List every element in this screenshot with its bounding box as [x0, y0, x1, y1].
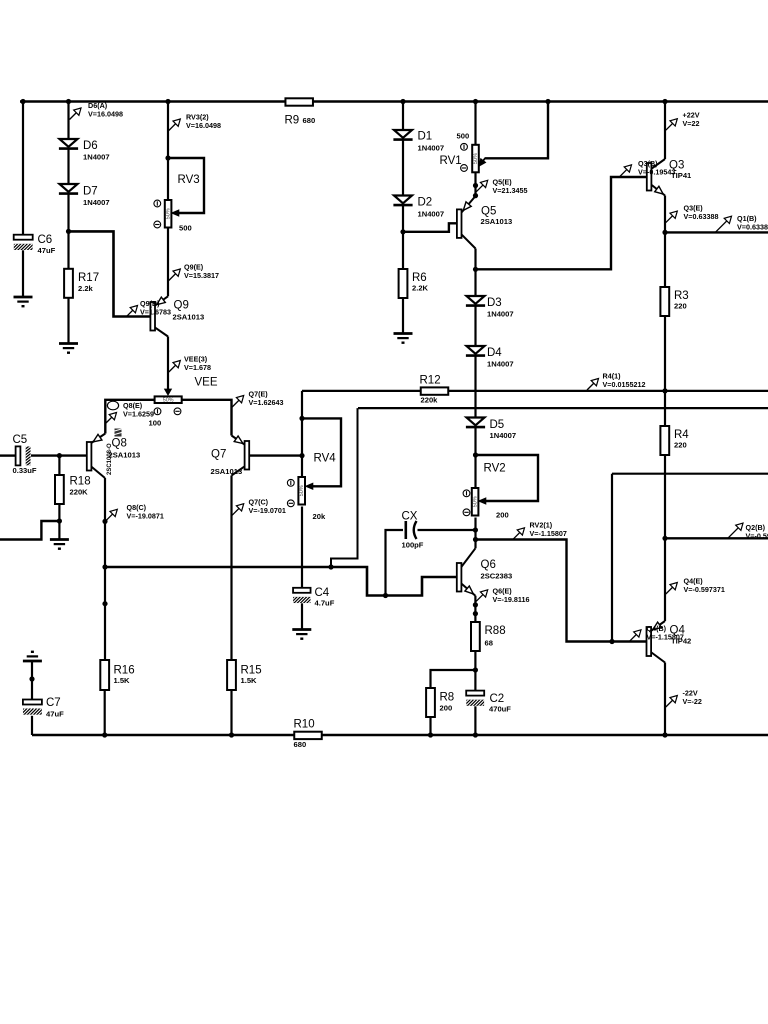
- RV1 wiper: [481, 158, 485, 164]
- wire RV1 wiper to top rail: [485, 102, 548, 159]
- svg-text:V=1.6259: V=1.6259: [123, 410, 154, 419]
- ground under R6: [394, 332, 413, 335]
- RV2 wiper: [482, 500, 487, 502]
- probe Q3(B): [620, 168, 629, 177]
- wire Q5 collector to Q3 base: [476, 177, 647, 269]
- ground under C6: [14, 296, 33, 299]
- wire R8 to bottom rail: [429, 717, 431, 735]
- wire +V top rail: [20, 100, 768, 103]
- wire R18 to ground node: [58, 504, 60, 539]
- wire RV2 bottom: [474, 518, 476, 549]
- wire RV4 bottom to C4: [301, 507, 303, 588]
- resistor R9: [285, 98, 313, 105]
- probe +22V: [666, 122, 675, 131]
- resistor R10: [294, 732, 322, 739]
- svg-text:V=22: V=22: [683, 119, 700, 128]
- svg-text:1.5K: 1.5K: [241, 676, 258, 685]
- node RV2 bottom / out: [473, 537, 478, 542]
- svg-text:2SA1013: 2SA1013: [211, 467, 243, 476]
- RV4 terminal 2: [287, 500, 294, 507]
- probe VEE(3): [169, 364, 178, 373]
- svg-text:D7: D7: [83, 186, 98, 198]
- node Q8 collector / long wire: [102, 564, 107, 569]
- RV4 wiper: [309, 485, 315, 487]
- svg-text:V=-19.8116: V=-19.8116: [493, 595, 530, 604]
- resistor R16: [100, 660, 109, 690]
- svg-text:2SC1008-O: 2SC1008-O: [107, 443, 113, 475]
- probe Q9(E): [169, 272, 178, 281]
- probe D6(A): [70, 111, 79, 120]
- capacitor C5: [16, 446, 21, 465]
- resistor R8: [426, 688, 435, 717]
- svg-text:V=-19.0871: V=-19.0871: [127, 512, 164, 521]
- probe -22V: [666, 699, 675, 708]
- svg-text:D5: D5: [490, 419, 505, 431]
- wire RV1 to Q5 emitter: [474, 172, 476, 196]
- svg-text:R16: R16: [114, 665, 135, 677]
- node CX / RV2 bottom: [473, 527, 478, 532]
- wire Q6 emitter down to R88: [474, 596, 476, 622]
- wire D4-D5: [474, 356, 476, 418]
- svg-text:50%: 50%: [473, 496, 479, 507]
- wire Q7 emitter diagonal: [232, 436, 245, 445]
- svg-text:R18: R18: [70, 476, 91, 488]
- svg-text:R12: R12: [420, 375, 441, 387]
- wire Q4 collector diagonal: [651, 652, 665, 663]
- wire RV3 to Q9 emitter: [167, 228, 169, 297]
- probe Q7(C): [232, 507, 241, 516]
- svg-text:V=16.0498: V=16.0498: [88, 110, 123, 119]
- resistor R18: [55, 475, 64, 504]
- wire D7 node to Q9 base: [69, 231, 151, 316]
- svg-text:V=-0.59737: V=-0.59737: [746, 532, 768, 541]
- svg-text:220: 220: [674, 302, 687, 311]
- wire net line2: [358, 407, 768, 409]
- node Q5 emitter join: [473, 193, 478, 198]
- diode D1: [394, 130, 412, 138]
- wire D2-R6: [402, 205, 404, 269]
- node Q5 collector: [473, 267, 478, 272]
- wire CX left vertical: [386, 530, 404, 596]
- svg-text:V=-1.15807: V=-1.15807: [647, 633, 684, 642]
- svg-text:500: 500: [457, 132, 470, 141]
- svg-text:Q6: Q6: [481, 559, 496, 571]
- wire C4 to ground: [301, 603, 303, 628]
- wire Q3 collector diagonal: [652, 159, 665, 169]
- svg-text:1N4007: 1N4007: [83, 198, 110, 207]
- svg-text:Q5: Q5: [481, 206, 496, 218]
- wire D6-D7: [67, 149, 69, 185]
- diode D5: [467, 418, 485, 426]
- svg-text:1N4007: 1N4007: [490, 431, 517, 440]
- node top rail / RV1: [473, 99, 478, 104]
- capacitor CX: [404, 521, 407, 539]
- svg-text:D4: D4: [487, 347, 502, 359]
- transistor Q9 2SA1013: [150, 302, 155, 331]
- wire RV4 top branch: [301, 391, 303, 477]
- RV3 terminal 2: [154, 221, 161, 228]
- wire Q8 emitter diagonal: [91, 434, 105, 444]
- probe Q5(E): [476, 183, 485, 192]
- svg-text:D2: D2: [418, 197, 433, 209]
- svg-text:V=-0.597371: V=-0.597371: [684, 585, 725, 594]
- svg-text:1N4007: 1N4007: [418, 210, 445, 219]
- node R16 bottom rail: [102, 732, 107, 737]
- probe Q7(E): [232, 399, 241, 408]
- node top rail / +22: [662, 99, 667, 104]
- svg-text:50%: 50%: [166, 208, 172, 219]
- wire C6 to ground: [22, 250, 24, 296]
- svg-text:R8: R8: [440, 692, 455, 704]
- wire D6 branch: [67, 102, 69, 140]
- node CX / long rail: [383, 593, 388, 598]
- node Q8 collector mid: [102, 601, 107, 606]
- svg-text:47uF: 47uF: [46, 710, 64, 719]
- resistor R88: [471, 622, 480, 651]
- node RV2 loop top: [473, 452, 478, 457]
- svg-text:CX: CX: [402, 511, 418, 523]
- node top rail / C6: [20, 99, 25, 104]
- node C5/R18 junction: [57, 453, 62, 458]
- svg-text:V=-19.0701: V=-19.0701: [249, 506, 286, 515]
- svg-text:2SA1013: 2SA1013: [481, 217, 513, 226]
- wire D1-D2: [402, 140, 404, 196]
- ground under R17: [59, 342, 78, 345]
- probe Q4(B): [630, 633, 639, 642]
- svg-text:V=1.678: V=1.678: [184, 363, 211, 372]
- transistor Q7 2SA1013: [245, 441, 250, 470]
- svg-text:V=0.0155212: V=0.0155212: [603, 380, 646, 389]
- probe R4(1): [587, 382, 596, 391]
- probe Q1(B): [716, 219, 729, 232]
- wire Q5 emitter diagonal: [462, 196, 476, 213]
- diode D6: [60, 139, 78, 147]
- resistor R15: [227, 660, 236, 690]
- potentiometer RV4: [298, 477, 305, 505]
- svg-text:R17: R17: [78, 272, 99, 284]
- svg-text:R4: R4: [674, 429, 689, 441]
- svg-text:RV3: RV3: [178, 174, 200, 186]
- probe Q9(B): [126, 309, 135, 318]
- wire RV4 feedback loop: [302, 418, 341, 486]
- wire Q5 collector down: [474, 249, 476, 297]
- wire net out3: [665, 231, 768, 233]
- svg-text:R15: R15: [241, 665, 262, 677]
- node R15 bottom rail: [229, 732, 234, 737]
- RV2 terminal 2: [463, 509, 470, 516]
- svg-text:1N4007: 1N4007: [487, 360, 514, 369]
- ground under R18: [50, 538, 69, 541]
- wire line3 down to Q4 base: [611, 474, 613, 642]
- svg-text:220k: 220k: [421, 396, 439, 405]
- node RV4 loop top: [299, 416, 304, 421]
- svg-text:0.33uF: 0.33uF: [13, 466, 37, 475]
- ground flag above C7: [23, 660, 42, 663]
- svg-text:D3: D3: [487, 297, 502, 309]
- node R88/R8/C2: [473, 667, 478, 672]
- wire C7 branch: [31, 661, 33, 700]
- svg-text:680: 680: [294, 740, 307, 749]
- svg-text:V=16.0498: V=16.0498: [186, 121, 221, 130]
- wire R4 down: [664, 455, 666, 538]
- node top rail / D6: [66, 99, 71, 104]
- svg-text:2SA1013: 2SA1013: [109, 451, 141, 460]
- svg-text:C4: C4: [315, 587, 330, 599]
- node Q3 emitter / out3: [662, 230, 667, 235]
- svg-text:200: 200: [440, 704, 453, 713]
- wire R3-R4: [664, 316, 666, 426]
- node R3/R4 line1: [662, 388, 667, 393]
- wire R16 to bottom rail: [104, 690, 106, 735]
- wire Q3 emitter diagonal: [652, 185, 665, 196]
- wire C5 to Q8 base: [31, 454, 87, 456]
- svg-text:Q9: Q9: [174, 300, 189, 312]
- transistor Q8 2SA1013: [87, 442, 92, 471]
- node Q8 collector probe: [102, 519, 107, 524]
- wire Q7 collector down to R15: [230, 476, 232, 661]
- svg-text:R9: R9: [285, 115, 300, 127]
- svg-text:RV1: RV1: [440, 155, 462, 167]
- RV5 terminal 1: [154, 408, 161, 415]
- diode D4: [467, 346, 485, 354]
- wire input stub: [0, 454, 15, 456]
- wire Q9 collector down to RV5 wiper: [167, 337, 169, 392]
- svg-text:1.5K: 1.5K: [114, 676, 131, 685]
- node top rail / RV1 wiper: [545, 99, 550, 104]
- resistor R4: [660, 426, 669, 455]
- wire RV2 feedback loop: [476, 455, 539, 501]
- wire R18 node to left edge: [0, 521, 59, 540]
- probe Q8(C): [106, 512, 115, 521]
- ground under C4: [292, 628, 311, 631]
- wire net line3: [612, 473, 768, 475]
- wire R6-ground: [402, 298, 404, 334]
- wire net out2: [665, 537, 768, 539]
- svg-text:2SC2383: 2SC2383: [481, 572, 513, 581]
- svg-text:100pF: 100pF: [402, 541, 424, 550]
- transistor Q3 TIP41: [647, 163, 652, 191]
- svg-text:20k: 20k: [313, 512, 326, 521]
- node RV4 / Q7 base: [299, 453, 304, 458]
- wire node to R8: [431, 670, 476, 688]
- RV1 terminal 1: [461, 143, 468, 150]
- node Q6 emitter probe: [473, 602, 478, 607]
- transistor Q6 2SC2383: [457, 563, 462, 592]
- wire CX right: [418, 529, 476, 531]
- wire C7 to bottom rail: [31, 716, 33, 735]
- svg-text:D1: D1: [418, 131, 433, 143]
- node Q4 emitter / out2: [662, 536, 667, 541]
- node top rail / RV3: [165, 99, 170, 104]
- wire Q8 collector down: [104, 478, 106, 660]
- probe RV2(1): [513, 531, 522, 540]
- svg-text:C2: C2: [490, 693, 505, 705]
- node D7/R17 junction: [66, 229, 71, 234]
- svg-text:V=1.6783: V=1.6783: [140, 308, 171, 317]
- svg-text:RV4: RV4: [314, 453, 337, 465]
- svg-text:100: 100: [149, 419, 162, 428]
- svg-text:V=-22: V=-22: [683, 697, 702, 706]
- probe Q6(E): [476, 593, 485, 602]
- wire Q4 emitter up: [664, 538, 666, 621]
- probe Q8(E): [107, 401, 118, 410]
- transistor Q4 TIP42: [647, 627, 652, 656]
- svg-text:R3: R3: [674, 290, 689, 302]
- svg-text:2SA1013: 2SA1013: [173, 313, 205, 322]
- potentiometer RV3: [165, 200, 172, 228]
- RV3 wiper: [175, 212, 181, 214]
- wire RV3 feedback loop: [168, 158, 204, 213]
- wire Q5 collector diagonal: [462, 234, 476, 248]
- wire bottom rail: [32, 734, 768, 737]
- wire R15 to bottom rail: [230, 690, 232, 735]
- RV1 terminal 2: [461, 165, 468, 172]
- svg-text:500: 500: [179, 224, 192, 233]
- node Q5 emitter probe: [473, 183, 478, 188]
- wire R18 branch: [58, 456, 60, 475]
- svg-text:47uF: 47uF: [38, 246, 56, 255]
- wire D2 node to Q5 base: [403, 223, 457, 232]
- node RV3 top loop: [165, 155, 170, 160]
- probe Q3(E): [666, 214, 675, 223]
- svg-text:Q8: Q8: [112, 438, 127, 450]
- wire Q4 emitter diagonal: [651, 621, 665, 631]
- wire Q4 collector to bottom rail: [664, 663, 666, 736]
- resistor R17: [64, 269, 73, 298]
- node C7 top: [29, 676, 34, 681]
- svg-text:R10: R10: [294, 719, 315, 731]
- wire Q8 collector diagonal: [91, 467, 105, 479]
- svg-text:V=15.3817: V=15.3817: [184, 271, 219, 280]
- wire net line1: [302, 390, 768, 392]
- svg-text:C6: C6: [38, 234, 53, 246]
- node Q4 bottom rail: [662, 732, 667, 737]
- svg-text:1N4007: 1N4007: [487, 310, 514, 319]
- svg-text:V=-1.15807: V=-1.15807: [530, 529, 567, 538]
- wire long mid rail: [105, 567, 457, 596]
- node Q4 base / feedback: [609, 639, 614, 644]
- RV3 terminal 1: [154, 200, 161, 207]
- wire RV5 left to Q8 emitter: [105, 400, 154, 434]
- svg-text:1N4007: 1N4007: [418, 144, 445, 153]
- svg-text:V=21.3455: V=21.3455: [493, 186, 528, 195]
- probe Q2(B): [728, 526, 740, 538]
- node R18 bottom: [57, 518, 62, 523]
- potentiometer RV5 100ohm: [155, 396, 182, 403]
- svg-text:200: 200: [496, 511, 509, 520]
- svg-text:VEE: VEE: [195, 377, 218, 389]
- wire D5-RV2: [474, 427, 476, 488]
- svg-text:220K: 220K: [70, 488, 89, 497]
- wire out to Q4 base: [476, 540, 647, 642]
- svg-text:RV2: RV2: [484, 463, 506, 475]
- wire Q7 collector diagonal: [232, 466, 245, 475]
- diode D7: [60, 184, 78, 192]
- svg-text:C5: C5: [13, 434, 28, 446]
- potentiometer RV1: [472, 145, 479, 173]
- svg-text:680: 680: [303, 116, 316, 125]
- resistor R3: [660, 287, 669, 316]
- probe Q4(E): [666, 586, 675, 595]
- RV2 terminal 1: [463, 490, 470, 497]
- wire Q3 emitter down: [664, 196, 666, 288]
- probe RV3(2): [169, 122, 178, 131]
- wire D1 branch: [402, 102, 404, 131]
- svg-text:Q7: Q7: [211, 449, 226, 461]
- RV4 terminal 1: [287, 479, 294, 486]
- svg-text:2.2K: 2.2K: [412, 284, 429, 293]
- wire D3-D4: [474, 306, 476, 347]
- svg-text:50%: 50%: [299, 485, 305, 496]
- svg-text:2.2k: 2.2k: [78, 284, 94, 293]
- svg-text:V=0.63388: V=0.63388: [737, 223, 768, 232]
- wire RV5 right to Q7 emitter: [182, 400, 232, 436]
- svg-text:68: 68: [485, 639, 493, 648]
- svg-text:R6: R6: [412, 272, 427, 284]
- transistor Q5 2SA1013: [457, 209, 462, 238]
- svg-text:C7: C7: [46, 697, 61, 709]
- resistor R6: [399, 269, 408, 298]
- wire Q6 collector diagonal: [461, 548, 475, 567]
- svg-text:D6: D6: [83, 140, 98, 152]
- wire D7-R17: [67, 194, 69, 269]
- wire RV3 branch: [167, 102, 169, 201]
- node C2 bottom rail: [473, 732, 478, 737]
- wire R88 to node: [474, 651, 476, 691]
- node R8 bottom rail: [428, 732, 433, 737]
- wire Q9 emitter diagonal: [155, 296, 168, 305]
- svg-text:4.7uF: 4.7uF: [315, 599, 335, 608]
- wire Q6 emitter diagonal: [461, 584, 475, 596]
- diode D3: [467, 296, 485, 304]
- RV5 terminal 2: [174, 408, 181, 415]
- wire C2 to bottom rail: [474, 706, 476, 735]
- svg-text:V=-0.19543: V=-0.19543: [638, 168, 675, 177]
- node D2/R6 junction: [400, 229, 405, 234]
- arrow into RV5 wiper: [164, 389, 172, 396]
- node Q6 emitter mid: [473, 611, 478, 616]
- wire C6 branch: [22, 102, 24, 235]
- wire Q7 base: [249, 454, 302, 456]
- svg-text:50%: 50%: [163, 398, 174, 404]
- svg-text:1N4007: 1N4007: [83, 153, 110, 162]
- svg-text:470uF: 470uF: [489, 705, 511, 714]
- wire +22 branch: [664, 102, 666, 160]
- resistor R12: [421, 387, 449, 394]
- svg-text:220: 220: [674, 441, 687, 450]
- potentiometer RV2: [472, 488, 479, 516]
- svg-text:V=1.62643: V=1.62643: [249, 398, 284, 407]
- wire branch up to line2: [331, 408, 358, 567]
- svg-text:50%: 50%: [473, 153, 479, 164]
- node long rail branch: [328, 564, 333, 569]
- node top rail / D1: [400, 99, 405, 104]
- diode D2: [394, 196, 412, 204]
- wire RV1 branch: [474, 102, 476, 145]
- svg-text:R88: R88: [485, 625, 506, 637]
- wire Q9 collector diagonal: [155, 327, 168, 336]
- wire R17-ground: [67, 298, 69, 344]
- svg-text:V=0.63388: V=0.63388: [684, 212, 719, 221]
